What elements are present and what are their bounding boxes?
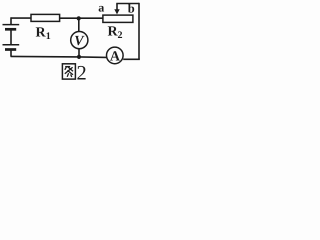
wire battery bottom lead (10, 50, 12, 57)
junction dot top (node between R1 and R2) (77, 16, 81, 20)
svg-text:A: A (110, 49, 121, 64)
wire R1 to R2 (60, 17, 103, 19)
svg-text:b: b (128, 2, 135, 16)
wire battery top lead (10, 17, 12, 24)
rheostat slider arrowhead (114, 9, 119, 14)
wire voltmeter top lead (78, 18, 80, 32)
wire top-left from battery to R1 (11, 17, 31, 19)
svg-text:a: a (98, 1, 104, 15)
resistor R1 box (31, 14, 60, 21)
wire bottom from battery to ammeter (11, 56, 107, 57)
voltmeter U-V circle (71, 31, 88, 48)
svg-text:1: 1 (46, 31, 51, 42)
wire rheostat slider vertical (116, 4, 118, 11)
battery cell1 long plate (3, 24, 20, 26)
battery cell2 short thick plate (5, 48, 16, 51)
battery cell1 short thick plate (5, 28, 16, 31)
junction dot bottom (77, 55, 81, 59)
ammeter U-A circle (107, 47, 124, 64)
wire right edge vertical (138, 3, 140, 60)
svg-text:2: 2 (77, 62, 87, 84)
caption glyph 图 (drawn) (62, 64, 75, 79)
wire bottom-right corner to ammeter (123, 58, 140, 60)
svg-text:2: 2 (118, 30, 123, 41)
wire slider top to corner (116, 3, 139, 5)
resistor R2 box (103, 15, 133, 22)
battery cell2 long plate (3, 44, 20, 46)
wire battery mid lead (10, 29, 12, 44)
wire voltmeter bottom lead (78, 49, 80, 57)
